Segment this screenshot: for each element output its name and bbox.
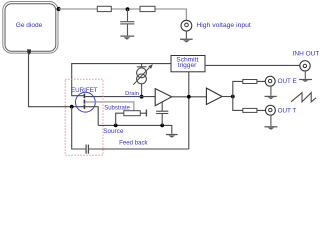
resistor R2 (140, 6, 155, 11)
wire: substrate lead (gray) (85, 102, 134, 112)
junction on top net (126, 7, 130, 11)
sawtooth waveform icon (291, 93, 316, 102)
node: Ge diode output (top-right) junction dot (57, 7, 61, 11)
svg-text:INH OUT: INH OUT (293, 51, 319, 58)
ground (below J2) (299, 79, 312, 82)
wire: Schmitt output to INH OUT (205, 64, 300, 66)
connector J3 OUT E (265, 76, 275, 86)
junction: source/substrate dot (114, 124, 118, 128)
op-amp U1 (155, 89, 172, 106)
wire: U1 output to U2 input (172, 96, 207, 98)
wire: J1 to ground stub (185, 31, 187, 38)
svg-text:Drain: Drain (125, 91, 139, 97)
wire: Ge diode anode drop + gate line (29, 54, 84, 107)
svg-text:Source: Source (103, 128, 124, 135)
wire: J3 ground stub (270, 86, 272, 96)
resistor R3 (243, 80, 257, 84)
ground (below J1) (180, 39, 193, 43)
resistor R4 (243, 108, 257, 112)
resistor R1 (97, 6, 111, 11)
Ge diode detector box (3, 2, 58, 54)
ground (source net) (166, 134, 178, 138)
capacitor C3 (feedback) (86, 145, 88, 154)
capacitor C2 (drain-source) (156, 102, 168, 125)
wire: lower output branch (233, 97, 266, 111)
junction: source/C2 dot (160, 124, 164, 128)
resistor R5 (substrate) with leads (116, 113, 124, 125)
svg-text:trigger: trigger (178, 62, 197, 69)
ground (below C1) (120, 36, 134, 40)
capacitor C1 (top filter) (120, 9, 134, 35)
svg-text:EURIFET: EURIFET (71, 87, 98, 94)
wire: upper output branch (233, 81, 266, 96)
svg-text:Substrate: Substrate (104, 105, 130, 111)
wire: J4 ground stub (270, 115, 272, 126)
capacitor plate / stub bar after R5 (145, 110, 147, 117)
op-amp U2 (206, 88, 222, 104)
junction: drain node dot (140, 95, 144, 99)
junction: amp node dot (187, 95, 191, 99)
wire: U2 output (222, 96, 233, 98)
EURIFET dashed enclosure (65, 79, 103, 155)
ground (below J3) (265, 96, 277, 100)
ground (below J4) (265, 126, 278, 130)
svg-text:High voltage input: High voltage input (196, 22, 251, 29)
transistor Q1 EURIFET (76, 92, 96, 112)
connector J4 OUT T (265, 105, 275, 115)
svg-text:Feed back: Feed back (119, 139, 148, 146)
Ge diode bottom pin (27, 49, 31, 52)
junction: output split dot (231, 95, 235, 99)
svg-text:OUT E: OUT E (278, 78, 297, 85)
svg-text:OUT T: OUT T (278, 108, 297, 115)
junction: gate node dot (70, 105, 74, 109)
wire: drain net to amplifier 1 (85, 96, 155, 98)
wire: top HV net (gray) (59, 9, 187, 23)
Schmitt trigger box U3 (171, 56, 205, 72)
wire: J2 ground stub (304, 71, 306, 79)
connector J1 High voltage input (181, 20, 192, 31)
wire: bias rail from FET top to Schmitt trigger (72, 64, 171, 96)
current source I1 (adjustable) (133, 64, 149, 97)
wire: source lead (85, 107, 98, 126)
wire: feedback path (gate node down, along bottom, up to amp node) (72, 72, 189, 149)
connector J2 INH OUT (300, 61, 310, 71)
svg-text:Ge diode: Ge diode (16, 22, 43, 29)
wire: source net along bottom to ground (98, 125, 172, 133)
